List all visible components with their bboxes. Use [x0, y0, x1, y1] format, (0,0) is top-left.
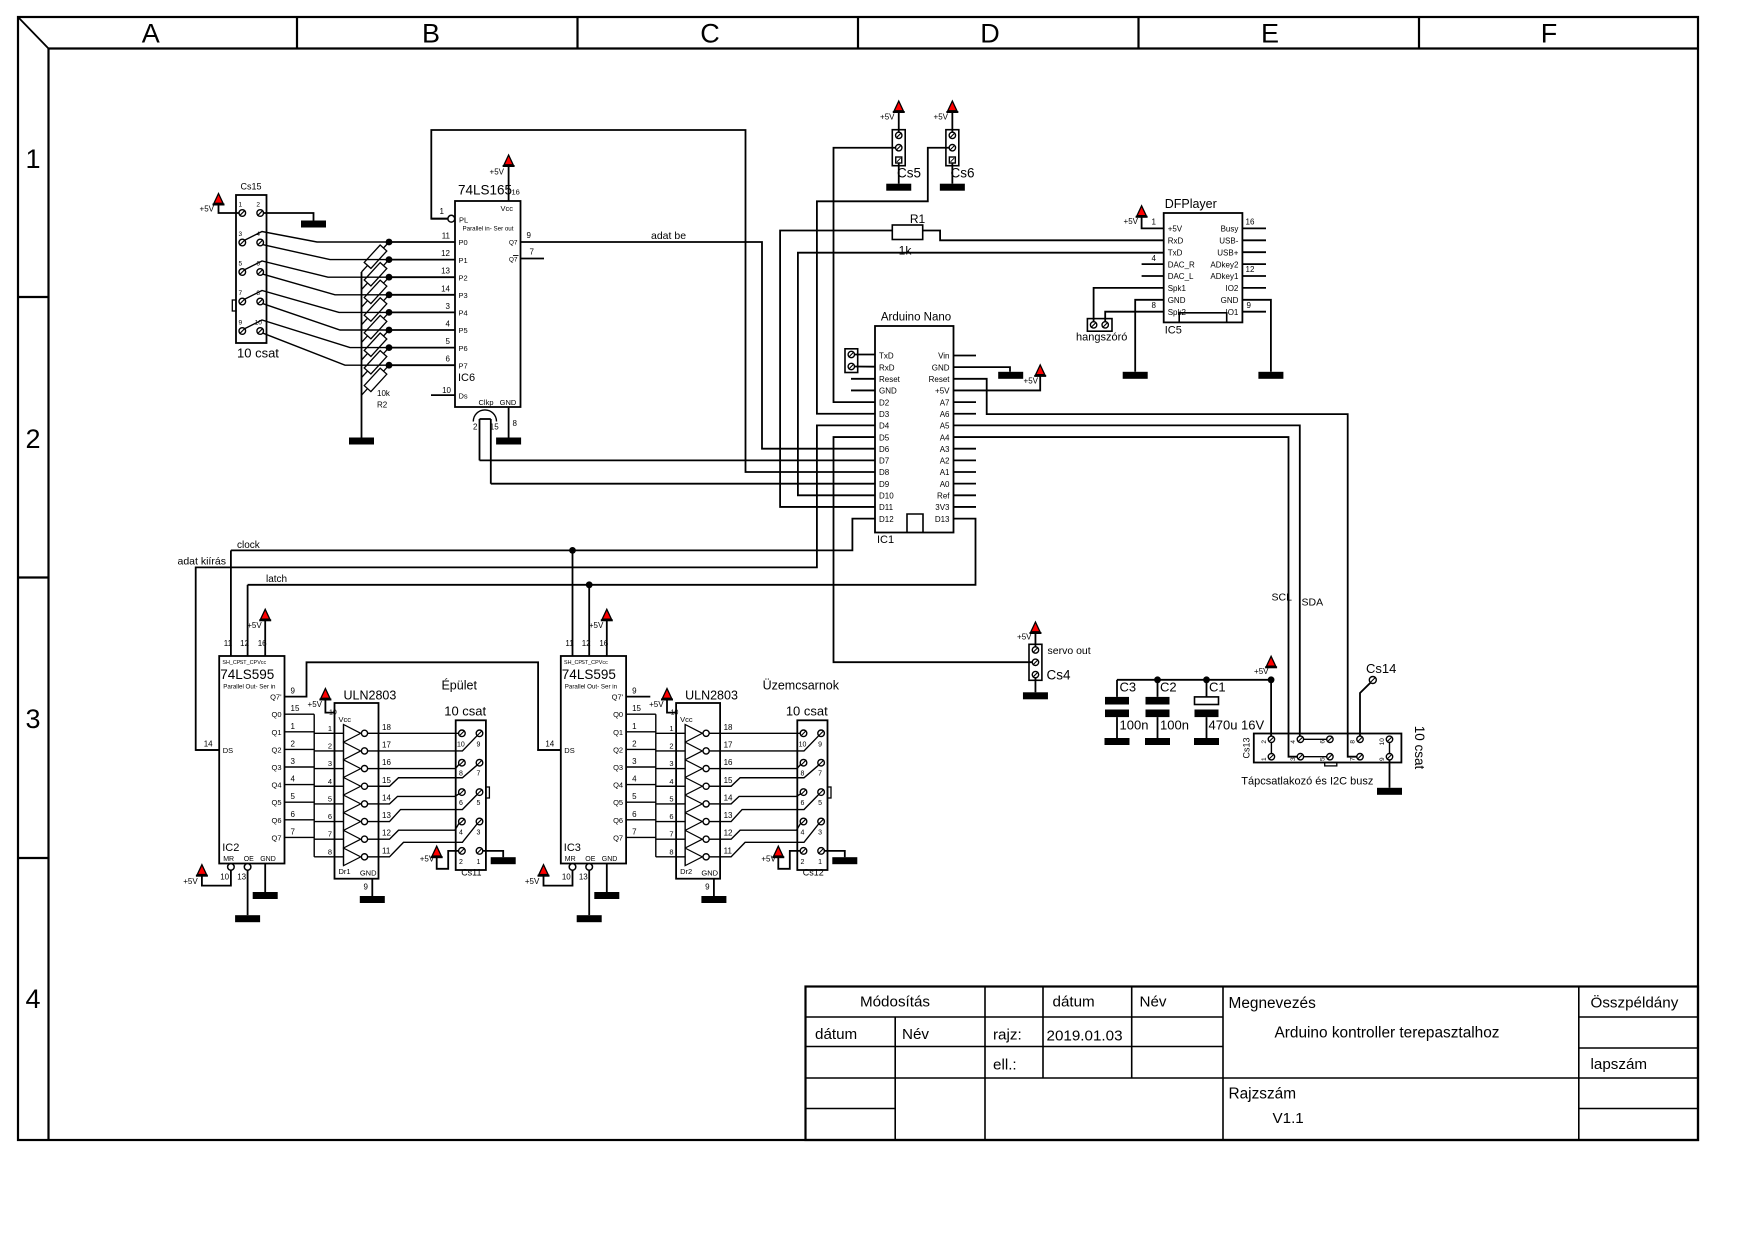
- svg-text:lapszám: lapszám: [1591, 1056, 1648, 1073]
- +5V supply symbol: [259, 619, 271, 621]
- svg-text:R2: R2: [377, 401, 388, 410]
- svg-text:5: 5: [1319, 757, 1326, 761]
- svg-text:Vcc: Vcc: [680, 715, 693, 724]
- svg-text:17: 17: [724, 740, 733, 749]
- IC3 OE pin 13 to ground: [586, 864, 593, 871]
- ground: [886, 184, 911, 191]
- svg-text:3: 3: [291, 757, 296, 766]
- svg-text:OE: OE: [585, 856, 595, 863]
- svg-text:A0: A0: [940, 480, 950, 489]
- programming header connector at TxD/RxD: [845, 349, 858, 373]
- svg-text:adat kiírás: adat kiírás: [178, 556, 226, 568]
- svg-text:D5: D5: [879, 433, 890, 442]
- svg-text:9: 9: [1379, 757, 1386, 761]
- svg-text:D9: D9: [879, 480, 890, 489]
- svg-text:P3: P3: [459, 291, 468, 300]
- DFPlayer IO1 stub pin9: [1242, 311, 1266, 313]
- wire header to RxD: [855, 366, 876, 368]
- frame column dividers: [296, 17, 298, 48]
- wire latch: D13 to shift registers: [248, 519, 976, 585]
- ground: [496, 438, 521, 445]
- svg-text:+5V: +5V: [761, 855, 776, 864]
- wire header to TxD: [855, 354, 876, 356]
- wire Cs14 to Cs13 pin8: [1360, 683, 1371, 736]
- Cs13 pin10-pin9 internal wire: [1389, 743, 1391, 754]
- svg-text:2: 2: [632, 739, 637, 748]
- svg-text:D2: D2: [879, 398, 890, 407]
- svg-text:18: 18: [382, 723, 391, 732]
- svg-text:IC1: IC1: [877, 534, 894, 546]
- svg-text:GND: GND: [879, 387, 897, 396]
- DFPlayer +5V pin1 wire: [1142, 217, 1164, 229]
- 74LS165 pin 10 Ds stub: [431, 394, 455, 396]
- svg-text:6: 6: [632, 810, 637, 819]
- svg-text:13: 13: [237, 873, 246, 882]
- wires IC2 Q0-Q7 to Dr1 inputs staircase: [313, 714, 315, 857]
- Cs13 bottom notch: [1325, 763, 1337, 766]
- Reset left stub: [851, 378, 875, 380]
- A6 stub: [954, 413, 977, 415]
- svg-text:5: 5: [669, 794, 673, 803]
- +5V supply symbol: [213, 204, 225, 206]
- svg-text:GND: GND: [932, 363, 950, 372]
- svg-text:7: 7: [1350, 757, 1357, 761]
- ground: [253, 892, 278, 899]
- +5V supply symbol: [893, 111, 905, 113]
- wire A4 SCL to Cs13 pin3: [954, 437, 1298, 757]
- svg-text:15: 15: [724, 776, 733, 785]
- connector Cs13 body: [1254, 734, 1402, 763]
- DFPlayer ADkey2 stub: [1242, 263, 1266, 265]
- svg-text:rajz:: rajz:: [993, 1027, 1022, 1044]
- svg-text:Reset: Reset: [929, 375, 951, 384]
- Cs11 pins 2,1: [459, 848, 466, 855]
- Dr1 channel 7: [335, 838, 344, 840]
- ground: [1194, 738, 1219, 745]
- svg-text:+5V: +5V: [308, 700, 323, 709]
- Cs11 pin2 to +5V: [437, 851, 459, 869]
- svg-text:Cs6: Cs6: [951, 166, 975, 181]
- svg-text:Q7: Q7: [613, 833, 623, 842]
- svg-text:+5V: +5V: [935, 387, 950, 396]
- svg-text:A2: A2: [940, 457, 950, 466]
- capacitor C2 100n: [1157, 680, 1159, 697]
- Cs15 pin2 wire to ground: [264, 213, 314, 221]
- svg-text:3: 3: [1290, 757, 1297, 761]
- svg-text:Q5: Q5: [271, 798, 281, 807]
- svg-text:Cs5: Cs5: [897, 166, 921, 181]
- DFPlayer USB- stub: [1242, 239, 1266, 241]
- wire Cs15 pin 8 to P5: [263, 304, 389, 330]
- svg-text:14: 14: [441, 284, 450, 293]
- svg-text:Q7: Q7: [509, 240, 518, 247]
- svg-text:P0: P0: [459, 238, 468, 247]
- 74LS165 clock pins arc: [473, 410, 496, 422]
- Cs13 pins 4,3: [1297, 736, 1303, 742]
- Dr1 GND pin 9 to ground: [371, 879, 373, 896]
- svg-text:Cs14: Cs14: [1366, 661, 1396, 676]
- svg-text:10: 10: [220, 873, 229, 882]
- svg-text:P2: P2: [459, 273, 468, 282]
- resistor R2 element 5: [364, 333, 387, 356]
- svg-text:4: 4: [328, 777, 332, 786]
- Cs6 ground: [951, 163, 953, 184]
- svg-text:A6: A6: [940, 410, 950, 419]
- svg-text:10: 10: [799, 741, 807, 748]
- svg-text:74LS595: 74LS595: [220, 667, 274, 682]
- svg-text:8: 8: [513, 419, 518, 428]
- svg-text:E: E: [1261, 19, 1279, 49]
- svg-text:7: 7: [530, 248, 535, 257]
- svg-text:SH_CP: SH_CP: [222, 660, 240, 666]
- svg-text:10: 10: [671, 710, 679, 717]
- 74LS165 Vcc pin 16 +5V: [508, 166, 510, 201]
- svg-text:+5V: +5V: [183, 877, 198, 886]
- resistor network R2 10k common rail: [361, 272, 363, 438]
- clock branch to IC3 pin11: [572, 550, 574, 648]
- svg-text:+5V: +5V: [589, 621, 604, 630]
- svg-text:Reset: Reset: [879, 375, 901, 384]
- Dr1 channel 2: [335, 750, 344, 752]
- resistor R2 element 2: [364, 280, 387, 303]
- wire Reset to Cs13 pin7: [954, 379, 1357, 757]
- svg-text:R1: R1: [910, 212, 926, 226]
- svg-text:Spk2: Spk2: [1168, 308, 1187, 317]
- svg-text:13: 13: [382, 811, 391, 820]
- svg-text:Vcc: Vcc: [599, 660, 608, 666]
- connector Cs14 single pin: [1369, 677, 1376, 684]
- svg-text:A4: A4: [940, 433, 950, 442]
- svg-text:15: 15: [291, 704, 300, 713]
- svg-text:Q2: Q2: [271, 745, 281, 754]
- wire PL loop: 74LS165 PL to Arduino D8: [431, 130, 875, 472]
- resistor R2 element 4: [364, 315, 387, 338]
- Cs4 ground: [1034, 678, 1036, 693]
- svg-text:P6: P6: [459, 344, 468, 353]
- svg-text:DFPlayer: DFPlayer: [1165, 197, 1217, 211]
- svg-text:servo out: servo out: [1048, 645, 1091, 657]
- svg-text:18: 18: [724, 723, 733, 732]
- Cs12 pin1 to ground: [824, 851, 845, 857]
- svg-text:P4: P4: [459, 309, 468, 318]
- svg-text:7: 7: [328, 830, 332, 839]
- svg-text:3: 3: [25, 704, 40, 734]
- svg-text:Vcc: Vcc: [257, 660, 266, 666]
- svg-text:3: 3: [818, 830, 822, 837]
- svg-text:Összpéldány: Összpéldány: [1591, 994, 1679, 1012]
- svg-text:10: 10: [1379, 738, 1386, 746]
- svg-text:8: 8: [328, 847, 332, 856]
- svg-text:1k: 1k: [899, 244, 913, 258]
- svg-text:11: 11: [382, 846, 391, 855]
- svg-text:6: 6: [291, 810, 296, 819]
- svg-text:USB-: USB-: [1219, 237, 1238, 246]
- svg-text:C2: C2: [1160, 680, 1177, 695]
- svg-text:1: 1: [477, 859, 481, 866]
- svg-text:74LS595: 74LS595: [562, 667, 616, 682]
- svg-text:17: 17: [382, 740, 391, 749]
- 3V3 stub: [954, 506, 977, 508]
- IC2 DS pin 14: [196, 749, 220, 751]
- +5V rail over capacitors: [1117, 679, 1271, 681]
- svg-text:OE: OE: [244, 856, 254, 863]
- svg-text:10 csat: 10 csat: [444, 703, 486, 718]
- wire Spk1 to speaker: [1094, 288, 1164, 322]
- svg-text:Clkp: Clkp: [478, 398, 493, 407]
- svg-text:1: 1: [291, 722, 296, 731]
- svg-text:Busy: Busy: [1221, 225, 1239, 234]
- svg-text:1: 1: [328, 724, 332, 733]
- svg-text:ST_CP: ST_CP: [581, 660, 599, 666]
- svg-text:Q0: Q0: [613, 710, 623, 719]
- svg-text:D8: D8: [879, 468, 890, 477]
- svg-text:ADkey1: ADkey1: [1210, 272, 1239, 281]
- svg-text:2019.01.03: 2019.01.03: [1047, 1028, 1123, 1045]
- Cs13 pins 6,5: [1327, 736, 1333, 742]
- wire adat kiiras: D4 to IC2 DS: [196, 425, 875, 750]
- wire Cs15 pin 9 to P6: [245, 320, 389, 348]
- +5V supply symbol: [319, 699, 331, 701]
- wires IC3 Q0-Q7 to Dr2 inputs staircase: [655, 714, 657, 857]
- svg-text:A1: A1: [940, 468, 950, 477]
- wire P2 bus with junction: [389, 276, 455, 278]
- svg-text:Vcc: Vcc: [500, 204, 513, 213]
- svg-text:7: 7: [477, 771, 481, 778]
- svg-text:Q7: Q7: [509, 256, 518, 263]
- +5V supply symbol: [196, 875, 208, 877]
- svg-text:9: 9: [1247, 301, 1252, 310]
- svg-text:F: F: [1541, 19, 1558, 49]
- frame corner diagonal: [18, 17, 48, 48]
- svg-text:1: 1: [1152, 218, 1157, 227]
- svg-text:IC6: IC6: [458, 372, 475, 384]
- Arduino Nano IC1 body: [875, 326, 954, 533]
- Arduino GND to ground: [954, 367, 1011, 372]
- svg-text:MR: MR: [565, 856, 576, 863]
- svg-text:DS: DS: [223, 746, 233, 755]
- svg-text:D3: D3: [879, 410, 890, 419]
- svg-text:dátum: dátum: [1053, 994, 1095, 1011]
- svg-text:10: 10: [329, 710, 337, 717]
- svg-text:3: 3: [238, 231, 242, 238]
- Dr1 channel 8: [335, 856, 344, 858]
- svg-text:Vin: Vin: [938, 352, 949, 361]
- svg-text:6: 6: [801, 800, 805, 807]
- svg-text:10 csat: 10 csat: [237, 346, 279, 361]
- svg-text:USB+: USB+: [1217, 248, 1238, 257]
- svg-text:D6: D6: [879, 445, 890, 454]
- svg-text:GND: GND: [1168, 296, 1186, 305]
- wire P6 bus with junction: [389, 347, 455, 349]
- capacitor C3 100n: [1116, 680, 1118, 697]
- svg-text:GND: GND: [701, 869, 718, 878]
- svg-text:Q7': Q7': [270, 693, 282, 702]
- svg-text:14: 14: [724, 793, 733, 802]
- svg-text:Cs12: Cs12: [803, 868, 824, 878]
- A2 stub: [954, 459, 977, 461]
- svg-text:P7: P7: [459, 361, 468, 370]
- connector Cs6: [946, 130, 959, 166]
- svg-text:Ref: Ref: [937, 492, 950, 501]
- ground: [1123, 372, 1148, 379]
- svg-text:+5V: +5V: [490, 168, 505, 177]
- ground: [998, 372, 1023, 379]
- svg-text:Arduino kontroller terepasztal: Arduino kontroller terepasztalhoz: [1275, 1025, 1500, 1042]
- svg-text:C: C: [700, 19, 720, 49]
- svg-text:Dr2: Dr2: [680, 867, 692, 876]
- svg-text:7: 7: [291, 827, 296, 836]
- svg-text:13: 13: [441, 267, 450, 276]
- svg-text:clock: clock: [237, 540, 261, 551]
- A0 stub: [954, 483, 977, 485]
- svg-text:D4: D4: [879, 422, 890, 431]
- svg-text:hangszóró: hangszóró: [1076, 332, 1127, 344]
- IC3 top pin stubs 11,12,16: [572, 648, 574, 656]
- svg-text:+5V: +5V: [1017, 633, 1032, 642]
- svg-text:Parallel Out- Ser in: Parallel Out- Ser in: [565, 684, 618, 691]
- svg-text:+5V: +5V: [1254, 667, 1269, 676]
- ground: [1105, 738, 1130, 745]
- svg-text:16: 16: [512, 188, 520, 197]
- resistor R2 element 6: [364, 351, 387, 374]
- 74LS165 pin 7 Q7-bar output: [521, 258, 545, 260]
- svg-text:SDA: SDA: [1302, 597, 1324, 609]
- DFPlayer USB+ stub: [1242, 251, 1266, 253]
- svg-text:12: 12: [724, 829, 733, 838]
- Dr1 channel 5: [335, 803, 344, 805]
- Dr2 channel 4: [676, 785, 685, 787]
- IC ULN2803 Dr1 body: [335, 703, 379, 879]
- wires Dr2 outputs to Cs12: [720, 732, 800, 734]
- svg-text:Parallel Out- Ser in: Parallel Out- Ser in: [223, 684, 276, 691]
- wire clock: D12 to shift registers: [231, 519, 875, 551]
- svg-text:1: 1: [238, 202, 242, 209]
- wire P4 bus with junction: [389, 311, 455, 313]
- svg-text:8: 8: [1350, 740, 1357, 744]
- Cs13 pins 2,1: [1268, 736, 1274, 742]
- IC3 DS pin 14: [537, 749, 561, 751]
- svg-text:100n: 100n: [1120, 718, 1149, 733]
- svg-text:Q6: Q6: [613, 816, 623, 825]
- DFPlayer Busy stub: [1242, 227, 1266, 229]
- svg-text:14: 14: [204, 740, 213, 749]
- svg-text:Épület: Épület: [441, 678, 477, 693]
- svg-text:Q6: Q6: [271, 816, 281, 825]
- svg-text:Q2: Q2: [613, 745, 623, 754]
- svg-text:Cs4: Cs4: [1047, 668, 1071, 683]
- svg-text:Q4: Q4: [613, 781, 623, 790]
- ground: [235, 915, 260, 922]
- speaker connector hangszóró: [1087, 319, 1112, 332]
- ground: [577, 915, 602, 922]
- svg-text:4: 4: [1290, 740, 1297, 744]
- svg-text:+5V: +5V: [200, 205, 215, 214]
- Cs11 pins 6,5: [459, 789, 466, 796]
- ground: [1145, 738, 1170, 745]
- Cs13 pin9 to ground: [1389, 760, 1391, 788]
- svg-text:10: 10: [442, 386, 451, 395]
- svg-text:4: 4: [632, 775, 637, 784]
- svg-text:11: 11: [724, 846, 733, 855]
- Vin stub: [954, 355, 977, 357]
- svg-text:Megnevezés: Megnevezés: [1229, 995, 1317, 1012]
- svg-text:Cs15: Cs15: [241, 182, 262, 192]
- svg-text:Q1: Q1: [271, 728, 281, 737]
- svg-text:8: 8: [669, 847, 673, 856]
- DFPlayer bottom notch: [1179, 313, 1227, 323]
- ground: [1377, 788, 1402, 795]
- IC 74LS595 IC3 body: [561, 656, 626, 864]
- svg-text:GND: GND: [1221, 296, 1239, 305]
- svg-text:3: 3: [328, 759, 332, 768]
- ground: [349, 438, 374, 445]
- svg-text:4: 4: [801, 830, 805, 837]
- IC 74LS165 IC6 body: [455, 201, 521, 407]
- Dr2 channel 2: [676, 750, 685, 752]
- svg-text:8: 8: [459, 771, 463, 778]
- wire P5 bus with junction: [389, 329, 455, 331]
- svg-text:5: 5: [238, 261, 242, 268]
- IC2 Vcc pin16 +5V: [264, 620, 266, 648]
- svg-text:2: 2: [669, 741, 673, 750]
- svg-text:15: 15: [632, 704, 641, 713]
- IC2 top pin stubs 11,12,16: [230, 648, 232, 656]
- svg-text:+5V: +5V: [649, 700, 664, 709]
- resistor R1 1k: [892, 225, 922, 240]
- svg-text:MR: MR: [223, 856, 234, 863]
- svg-text:RxD: RxD: [879, 363, 895, 372]
- svg-text:2: 2: [25, 424, 40, 454]
- svg-text:Q1: Q1: [613, 728, 623, 737]
- svg-text:Q3: Q3: [271, 763, 281, 772]
- A3 stub: [954, 448, 977, 450]
- svg-text:9: 9: [705, 883, 710, 892]
- DFPlayer ADkey1 stub: [1242, 275, 1266, 277]
- svg-text:9: 9: [477, 741, 481, 748]
- svg-text:ULN2803: ULN2803: [344, 689, 397, 703]
- svg-text:3: 3: [477, 830, 481, 837]
- svg-text:2: 2: [459, 859, 463, 866]
- +5V supply symbol: [946, 111, 958, 113]
- svg-text:5: 5: [477, 800, 481, 807]
- svg-text:D: D: [980, 19, 1000, 49]
- svg-text:2: 2: [801, 859, 805, 866]
- resistor R2 element 1: [364, 263, 387, 286]
- svg-text:IC3: IC3: [564, 842, 581, 854]
- svg-text:10: 10: [562, 873, 571, 882]
- +5V supply symbol: [1136, 216, 1148, 218]
- svg-text:IC2: IC2: [222, 842, 239, 854]
- connector Cs5: [892, 130, 905, 166]
- Cs13 pins 8,7: [1357, 736, 1363, 742]
- wire P1 bus with junction: [389, 259, 455, 261]
- svg-text:IO1: IO1: [1225, 308, 1238, 317]
- ground: [594, 892, 619, 899]
- svg-text:12: 12: [441, 249, 450, 258]
- svg-text:1: 1: [669, 724, 673, 733]
- svg-text:3: 3: [446, 302, 451, 311]
- wire Cs15 pin 4 to P1: [263, 245, 389, 260]
- IC ULN2803 Dr2 body: [676, 703, 720, 879]
- Cs11 pin1 to ground: [483, 851, 504, 857]
- svg-text:B: B: [422, 19, 440, 49]
- svg-text:Q5: Q5: [613, 798, 623, 807]
- resistor R2 element 3: [364, 298, 387, 321]
- IC2 GND pin 8 to ground: [264, 864, 266, 893]
- wire IC2 Q7out to IC3 DS (daisy chain): [285, 662, 561, 750]
- Cs13 pin2-pin1 internal wire: [1270, 743, 1272, 754]
- svg-text:9: 9: [632, 687, 637, 696]
